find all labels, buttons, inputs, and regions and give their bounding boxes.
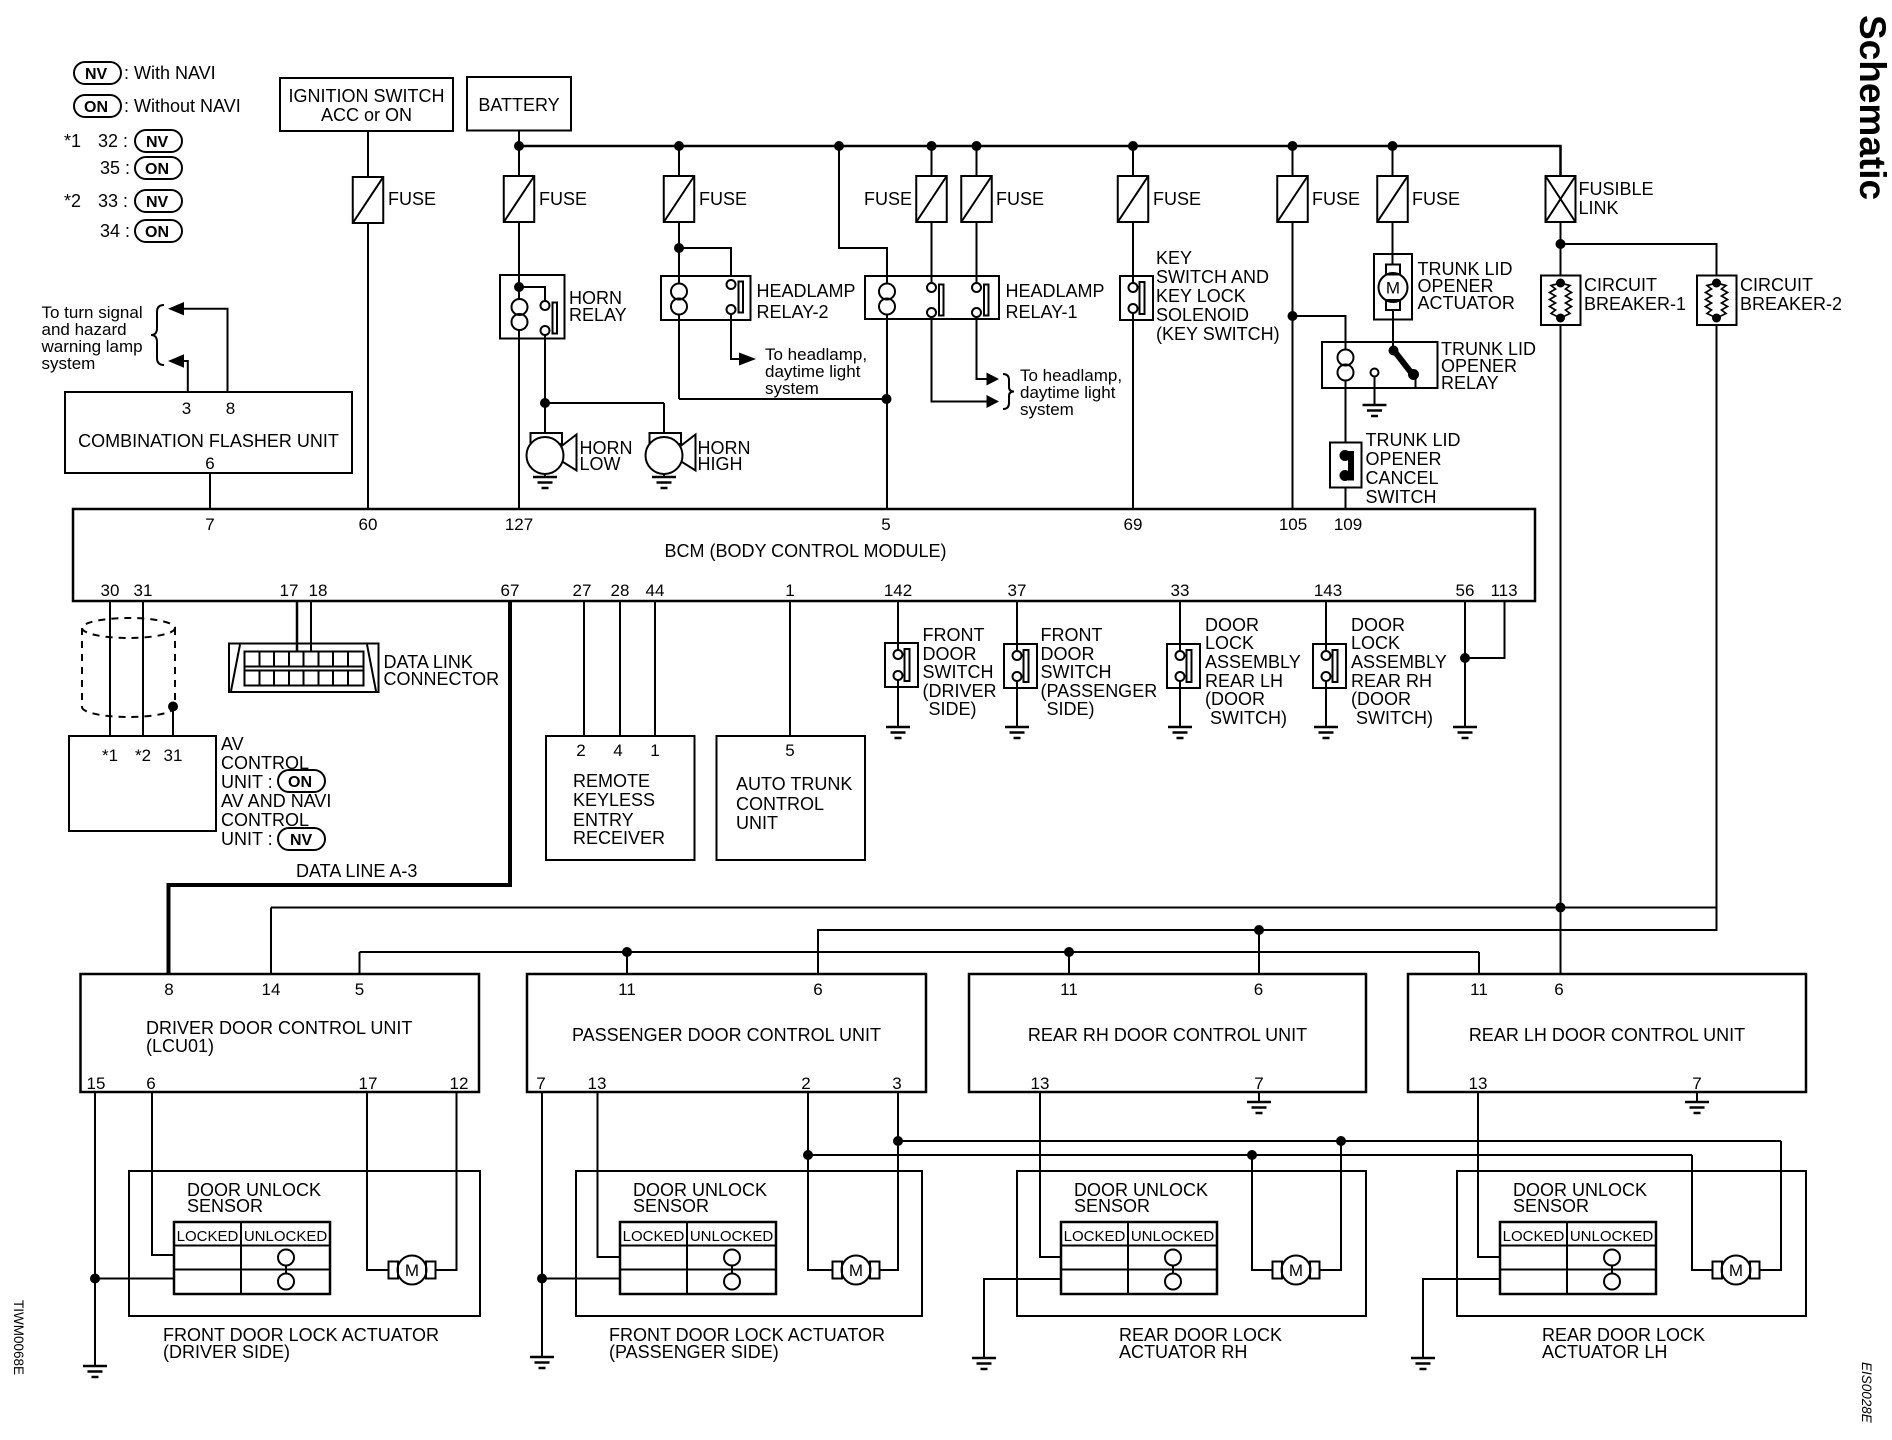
svg-text:28: 28 (611, 581, 630, 600)
wire bus to fuse F8 (1392, 146, 1394, 176)
svg-text:FUSE: FUSE (699, 189, 747, 209)
svg-text:UNIT :: UNIT : (221, 829, 273, 849)
svg-text:SIDE): SIDE) (1047, 699, 1095, 719)
wire rear RH pin 13 to sensor locked row (1040, 1092, 1061, 1257)
svg-text:UNLOCKED: UNLOCKED (1570, 1228, 1654, 1245)
svg-text:EIS0028E: EIS0028E (1859, 1362, 1874, 1424)
svg-text:109: 109 (1334, 515, 1362, 534)
wire BCM pin 143 to door lock assembly rear RH (1325, 601, 1327, 644)
svg-text:RELAY-1: RELAY-1 (1006, 302, 1078, 322)
svg-text:NV: NV (146, 134, 169, 151)
svg-text:FUSIBLE: FUSIBLE (1579, 179, 1654, 199)
wire shield drain to AV pin 31 (168, 702, 178, 737)
wire CB-1 to driver pin 14 and rear LH pin 6 (271, 325, 1717, 974)
wire BCM pin 27 to receiver pin 2 (583, 601, 585, 736)
svg-text:5: 5 (355, 980, 364, 999)
svg-text:13: 13 (1031, 1074, 1050, 1093)
door unlock sensor table rear RH (1061, 1222, 1217, 1294)
caption rear door lock actuator RH (1119, 1325, 1282, 1362)
svg-text:ACTUATOR LH: ACTUATOR LH (1542, 1342, 1667, 1362)
svg-text:FUSE: FUSE (1153, 189, 1201, 209)
svg-text:6: 6 (146, 1074, 155, 1093)
svg-text:IGNITION SWITCH: IGNITION SWITCH (289, 86, 445, 106)
svg-text:KEY LOCK: KEY LOCK (1156, 286, 1246, 306)
svg-text:(PASSENGER: (PASSENGER (1041, 681, 1158, 701)
wire to rear RH motor left (1252, 1155, 1273, 1270)
fuse F1 ignition (353, 177, 436, 223)
wire flasher pin 8 to turn signal arrow (168, 302, 228, 392)
ground driver actuator (83, 1366, 107, 1377)
ground passenger actuator (530, 1357, 554, 1368)
arrow to headlamp daytime light system 1 (739, 345, 867, 398)
wire flasher pin 6 to BCM pin 7 (209, 473, 211, 509)
wire relay-1 contact A to arrow (932, 317, 987, 402)
ground rear LH unit pin 7 (1685, 1092, 1709, 1113)
wire trunk relay coil to cancel switch (1345, 380, 1347, 443)
svg-text:FUSE: FUSE (996, 189, 1044, 209)
svg-text:31: 31 (164, 746, 183, 765)
svg-text:ACTUATOR RH: ACTUATOR RH (1119, 1342, 1247, 1362)
rear RH door control unit (969, 974, 1366, 1093)
svg-text:33: 33 (1171, 581, 1190, 600)
trunk lid opener actuator (1374, 222, 1515, 320)
svg-text:UNLOCKED: UNLOCKED (690, 1228, 774, 1245)
door lock motor passenger (833, 1256, 880, 1285)
legend 34 : ON (100, 220, 182, 242)
svg-text:1: 1 (650, 741, 659, 760)
fuse F4 (864, 176, 947, 222)
front door lock actuator passenger side (576, 1171, 922, 1316)
svg-text:*2: *2 (135, 746, 151, 765)
front door lock actuator driver side (129, 1171, 480, 1316)
svg-text:60: 60 (359, 515, 378, 534)
fuse F5 (961, 176, 1044, 222)
svg-text:RELAY: RELAY (569, 305, 627, 325)
svg-text:system: system (1020, 400, 1074, 419)
auto trunk control unit (717, 736, 866, 860)
rear door lock actuator RH (1017, 1171, 1366, 1316)
ground front door switch driver (886, 687, 910, 738)
wire BCM pin 28 to receiver pin 4 (619, 601, 621, 736)
svg-text:SWITCH: SWITCH (923, 662, 994, 682)
svg-text:*2: *2 (64, 191, 81, 211)
driver door control unit (81, 974, 480, 1093)
wire relay-2 coil bottom to pin5 node (678, 314, 680, 399)
wire bus to fuse F6 (1132, 146, 1134, 176)
door unlock sensor table driver (174, 1222, 330, 1294)
data link connector (229, 644, 499, 693)
svg-text:3: 3 (182, 399, 191, 418)
svg-text:SWITCH): SWITCH) (1356, 708, 1433, 728)
fuse F7 trunk relay (1277, 176, 1360, 222)
svg-text:37: 37 (1008, 581, 1027, 600)
door lock assembly rear RH door switch (1313, 615, 1447, 728)
svg-text:15: 15 (87, 1074, 106, 1093)
svg-text:REAR RH: REAR RH (1351, 671, 1432, 691)
wire driver pin 17 to motor (367, 1092, 389, 1270)
svg-text:BREAKER-2: BREAKER-2 (1740, 294, 1842, 314)
wire battery bus (514, 141, 1561, 176)
svg-text:143: 143 (1314, 581, 1342, 600)
svg-text:UNIT :: UNIT : (221, 772, 273, 792)
svg-text:CANCEL: CANCEL (1366, 468, 1439, 488)
svg-text:CONNECTOR: CONNECTOR (384, 669, 500, 689)
shield cylinder around AV wires (82, 618, 175, 717)
wire CB-2 to passenger pin 6 and rear RH pin 6 (818, 325, 1717, 974)
ground rear RH unit pin 7 (1247, 1092, 1271, 1113)
svg-text:35 :: 35 : (100, 158, 130, 178)
wire battery drop (518, 131, 520, 147)
svg-text:113: 113 (1490, 581, 1517, 600)
svg-text:2: 2 (576, 741, 585, 760)
wire BCM pin 30 to AV unit (109, 601, 111, 736)
svg-text:LOCKED: LOCKED (623, 1228, 685, 1245)
wire ignition to fuse (367, 131, 369, 177)
svg-text:LOCKED: LOCKED (1503, 1228, 1565, 1245)
caption front door lock actuator passenger side (609, 1325, 885, 1362)
wire driver pin 12 to motor (436, 1092, 457, 1270)
fuse F3 headlamp relay-2 (664, 176, 747, 222)
ground door lock assembly rear RH (1314, 688, 1338, 738)
wire rear LH pin 13 to sensor locked row (1478, 1092, 1500, 1257)
svg-text:NV: NV (290, 832, 313, 849)
wire data line A-3 BCM pin 67 to driver pin 8 (169, 601, 511, 974)
svg-text:COMBINATION FLASHER UNIT: COMBINATION FLASHER UNIT (78, 431, 339, 451)
wire fuse F1 to BCM pin 60 (367, 223, 369, 509)
svg-text:UNIT: UNIT (736, 813, 778, 833)
caption rear door lock actuator LH (1542, 1325, 1705, 1362)
svg-text:SWITCH: SWITCH (1041, 662, 1112, 682)
svg-text:SENSOR: SENSOR (187, 1196, 263, 1216)
wire fuse F7 to BCM pin 105 with branch to trunk relay coil (1288, 222, 1346, 509)
svg-text:3: 3 (892, 1074, 901, 1093)
svg-text:33 :: 33 : (98, 191, 128, 211)
trunk lid opener cancel switch (1330, 430, 1461, 507)
wire key switch to BCM pin 69 (1132, 320, 1134, 509)
svg-text:LOCKED: LOCKED (1064, 1228, 1126, 1245)
svg-text:SWITCH): SWITCH) (1210, 708, 1287, 728)
ground horn high (652, 474, 676, 488)
wire bus branch to relay-1 coil (839, 146, 887, 276)
svg-text:30: 30 (101, 581, 120, 600)
svg-text:REAR LH DOOR CONTROL UNIT: REAR LH DOOR CONTROL UNIT (1469, 1025, 1745, 1045)
svg-text:5: 5 (785, 741, 794, 760)
svg-text:5: 5 (881, 515, 890, 534)
svg-text:LOCKED: LOCKED (177, 1228, 239, 1245)
caption front door lock actuator driver side (163, 1325, 439, 1362)
svg-text:7: 7 (1254, 1074, 1263, 1093)
wire fuse F2 to horn relay (518, 222, 520, 287)
svg-text:FRONT: FRONT (923, 625, 985, 645)
svg-text:FUSE: FUSE (539, 189, 587, 209)
svg-text:44: 44 (646, 581, 665, 600)
ground door lock assembly rear LH (1168, 688, 1192, 738)
wire BCM pin 113 joins pin 56 (1465, 601, 1505, 658)
circuit breaker-1 (1541, 275, 1686, 325)
svg-text:FUSE: FUSE (864, 189, 912, 209)
svg-text:DATA LINE A-3: DATA LINE A-3 (296, 861, 417, 881)
fuse F2 horn (504, 176, 587, 222)
legend 35 : ON (100, 157, 182, 179)
passenger door control unit (527, 974, 926, 1093)
wire bus to fuse F7 (1292, 146, 1294, 176)
ground horn low (533, 474, 557, 488)
svg-text:SIDE): SIDE) (929, 699, 977, 719)
svg-text:56: 56 (1456, 581, 1475, 600)
headlamp relay-1 (865, 276, 1105, 322)
svg-text:ASSEMBLY: ASSEMBLY (1205, 652, 1301, 672)
door unlock sensor table rear LH (1500, 1222, 1656, 1294)
combination flasher unit (65, 392, 352, 473)
rear LH door control unit (1408, 974, 1806, 1093)
svg-text:8: 8 (164, 980, 173, 999)
trunk lid opener relay (1322, 339, 1536, 393)
svg-text:18: 18 (309, 581, 328, 600)
svg-text:ON: ON (84, 99, 108, 116)
front door switch driver side (885, 625, 997, 719)
svg-text:34 :: 34 : (100, 221, 130, 241)
svg-text:31: 31 (134, 581, 153, 600)
svg-text:: Without NAVI: : Without NAVI (124, 96, 241, 116)
fuse F8 trunk actuator (1377, 176, 1460, 222)
wire to rear LH motor left (1692, 1155, 1713, 1270)
svg-text:PASSENGER DOOR CONTROL UNIT: PASSENGER DOOR CONTROL UNIT (572, 1025, 881, 1045)
svg-text:SOLENOID: SOLENOID (1156, 305, 1249, 325)
wire fusible link to circuit breakers (1556, 222, 1717, 276)
circuit breaker-2 (1697, 275, 1842, 325)
svg-text:6: 6 (1554, 980, 1563, 999)
svg-text:27: 27 (573, 581, 592, 600)
svg-text:NV: NV (85, 66, 108, 83)
wire rear LH sensor to ground (1423, 1279, 1500, 1358)
svg-text:HIGH: HIGH (698, 454, 743, 474)
front door switch passenger side (1004, 625, 1157, 719)
svg-text:LOW: LOW (580, 454, 621, 474)
svg-text:67: 67 (501, 581, 520, 600)
svg-text:17: 17 (280, 581, 299, 600)
svg-text:RECEIVER: RECEIVER (573, 828, 665, 848)
svg-text:6: 6 (813, 980, 822, 999)
svg-text:DOOR: DOOR (1041, 644, 1095, 664)
svg-text:7: 7 (205, 515, 214, 534)
wire bus to fuse F5 (976, 146, 978, 176)
wire BCM pin 17 to data link connector (296, 601, 299, 651)
wire bus to fuse F2 (518, 146, 520, 176)
svg-text:AUTO TRUNK: AUTO TRUNK (736, 774, 852, 794)
svg-text:OPENER: OPENER (1366, 449, 1442, 469)
legend *1 32 : NV (64, 130, 182, 152)
wire to rear RH motor right (1320, 1141, 1342, 1270)
horn high (646, 433, 751, 474)
ground rear RH actuator (972, 1358, 996, 1369)
svg-text:BATTERY: BATTERY (478, 95, 559, 115)
svg-text:4: 4 (613, 741, 622, 760)
wire passenger pin 13 to sensor locked row (598, 1092, 621, 1257)
headlamp relay-2 (661, 276, 856, 322)
door lock assembly rear LH door switch (1167, 615, 1301, 728)
svg-text:Schematic: Schematic (1852, 15, 1892, 200)
svg-text:SENSOR: SENSOR (1513, 1196, 1589, 1216)
svg-text:*1: *1 (102, 746, 118, 765)
wire horn relay coil to BCM pin 127 (518, 330, 520, 509)
svg-text:M: M (1386, 279, 1400, 298)
svg-text:RELAY: RELAY (1441, 373, 1499, 393)
svg-text:AV AND NAVI: AV AND NAVI (221, 791, 331, 811)
svg-text:ON: ON (145, 224, 169, 241)
ground BCM pin 56 (1453, 727, 1477, 738)
svg-text:REAR RH DOOR CONTROL UNIT: REAR RH DOOR CONTROL UNIT (1028, 1025, 1307, 1045)
svg-text:LOCK: LOCK (1205, 633, 1254, 653)
svg-text:CIRCUIT: CIRCUIT (1584, 275, 1657, 295)
svg-text:DOOR: DOOR (923, 644, 977, 664)
wire bus to fuse F4 (931, 146, 933, 176)
wire horn relay contact to horns (540, 334, 664, 433)
svg-text:SENSOR: SENSOR (633, 1196, 709, 1216)
svg-text:HEADLAMP: HEADLAMP (1006, 281, 1105, 301)
svg-text:12: 12 (450, 1074, 469, 1093)
legend ON : Without NAVI (74, 95, 241, 117)
horn relay (500, 275, 627, 339)
wire fuse F4 to relay-1 contact A (931, 222, 933, 283)
wire passenger pin 3 to motor (880, 1092, 899, 1270)
svg-text:DOOR: DOOR (1205, 615, 1259, 635)
svg-text:FRONT: FRONT (1041, 625, 1103, 645)
wire driver pin 6 to sensor locked row (152, 1092, 174, 1255)
svg-text:ON: ON (288, 774, 312, 791)
fuse F6 key switch (1118, 176, 1201, 222)
horn low (527, 433, 633, 474)
svg-text:CIRCUIT: CIRCUIT (1740, 275, 1813, 295)
wire passenger pin 2 to motor (808, 1092, 833, 1270)
svg-text:TIWM0068E: TIWM0068E (11, 1300, 26, 1375)
svg-text:BREAKER-1: BREAKER-1 (1584, 294, 1686, 314)
door unlock sensor table passenger (620, 1222, 776, 1294)
wire passenger pin 2 to rear motors left (803, 1150, 1692, 1160)
svg-text:(DRIVER: (DRIVER (923, 681, 997, 701)
svg-text:system: system (765, 379, 819, 398)
wire flasher pin 3 to hazard arrow (168, 354, 188, 392)
svg-text:SWITCH: SWITCH (1366, 487, 1437, 507)
wire relay-2 to relay-1 junction (679, 398, 887, 400)
wire passenger pin 7 to sensor and ground (537, 1092, 620, 1357)
svg-text:6: 6 (205, 454, 214, 473)
wire driver pin 15 to sensor and ground (90, 1092, 174, 1366)
AV control unit label with NAVI ovals (221, 734, 331, 850)
wire BCM pin 1 to auto trunk control unit pin 5 (789, 601, 791, 736)
wire rear RH sensor to ground (984, 1279, 1061, 1358)
wire bus to fuse F3 (678, 146, 680, 176)
arrows and brace to headlamp daytime light system 2 (987, 366, 1123, 419)
svg-text:ACC or ON: ACC or ON (321, 105, 412, 125)
door lock motor rear RH (1273, 1256, 1320, 1285)
wire cancel switch to BCM pin 109 (1345, 488, 1347, 510)
svg-text:SENSOR: SENSOR (1074, 1196, 1150, 1216)
wire relay-1 coil to BCM pin 5 (882, 314, 892, 509)
ground front door switch passenger (1005, 688, 1029, 738)
to turn signal and hazard warning lamp system note (41, 303, 165, 373)
svg-text:FUSE: FUSE (1312, 189, 1360, 209)
svg-text:DRIVER DOOR CONTROL UNIT: DRIVER DOOR CONTROL UNIT (146, 1018, 412, 1038)
fusible link (1546, 176, 1654, 222)
wire fuse F3 to relay-2 coil with branch to contact (674, 222, 731, 276)
ground trunk relay contact (1363, 377, 1387, 417)
ground rear LH actuator (1411, 1358, 1435, 1369)
svg-text:(DOOR: (DOOR (1351, 689, 1411, 709)
svg-text:FUSE: FUSE (1412, 189, 1460, 209)
AV control unit (69, 736, 216, 831)
svg-text:7: 7 (536, 1074, 545, 1093)
svg-text:FUSE: FUSE (388, 189, 436, 209)
svg-text:KEY: KEY (1156, 248, 1192, 268)
svg-text:HEADLAMP: HEADLAMP (757, 281, 856, 301)
svg-text:DOOR: DOOR (1351, 615, 1405, 635)
wire BCM pin 33 to door lock assembly rear LH (1179, 601, 1181, 644)
svg-text:13: 13 (1469, 1074, 1488, 1093)
BCM body control module (73, 509, 1535, 601)
wire actuator to trunk relay blade (1392, 310, 1394, 350)
key switch and key lock solenoid (1120, 222, 1280, 344)
wire fuse F5 to relay-1 contact B (976, 222, 978, 283)
wire to rear LH motor right (1760, 1141, 1782, 1270)
wire BCM pin 44 to receiver pin 1 (654, 601, 656, 736)
svg-text:ENTRY: ENTRY (573, 810, 634, 830)
svg-text:*1: *1 (64, 131, 81, 151)
svg-text:13: 13 (588, 1074, 607, 1093)
svg-text:: With NAVI: : With NAVI (124, 63, 216, 83)
svg-text:(DRIVER SIDE): (DRIVER SIDE) (163, 1342, 290, 1362)
svg-text:142: 142 (884, 581, 912, 600)
svg-text:ASSEMBLY: ASSEMBLY (1351, 652, 1447, 672)
svg-text:7: 7 (1692, 1074, 1701, 1093)
svg-text:105: 105 (1279, 515, 1307, 534)
svg-text:2: 2 (801, 1074, 810, 1093)
wire relay-1 contact B to arrow (977, 317, 987, 379)
svg-text:LINK: LINK (1579, 198, 1619, 218)
svg-text:14: 14 (262, 980, 281, 999)
svg-text:32 :: 32 : (98, 131, 128, 151)
legend NV : With NAVI (74, 62, 216, 84)
legend *2 33 : NV (64, 190, 182, 212)
svg-text:11: 11 (618, 980, 636, 999)
svg-text:KEYLESS: KEYLESS (573, 790, 655, 810)
remote keyless entry receiver (546, 736, 695, 860)
svg-text:17: 17 (359, 1074, 378, 1093)
svg-text:(KEY SWITCH): (KEY SWITCH) (1156, 324, 1280, 344)
wire BCM pin 142 to front door switch driver (897, 601, 899, 643)
svg-text:REMOTE: REMOTE (573, 771, 650, 791)
wire driver pin 5 to pin 11 of other door units (360, 947, 1480, 974)
svg-text:LOCK: LOCK (1351, 633, 1400, 653)
svg-text:ACTUATOR: ACTUATOR (1418, 293, 1515, 313)
svg-text:REAR LH: REAR LH (1205, 671, 1283, 691)
svg-text:11: 11 (1060, 980, 1078, 999)
svg-text:UNLOCKED: UNLOCKED (244, 1228, 328, 1245)
battery (467, 77, 571, 131)
wire BCM pin 31 to AV unit (142, 601, 144, 736)
rear door lock actuator LH (1457, 1171, 1806, 1316)
svg-text:11: 11 (1470, 980, 1488, 999)
wire passenger pin 3 to rear motors right (893, 1136, 1781, 1146)
svg-text:8: 8 (226, 399, 235, 418)
svg-text:TRUNK LID: TRUNK LID (1366, 430, 1461, 450)
wire BCM pin 56 to ground (1460, 601, 1470, 727)
wire BCM pin 18 to data link connector (310, 601, 312, 651)
svg-text:(DOOR: (DOOR (1205, 689, 1265, 709)
svg-text:NV: NV (146, 194, 169, 211)
wire BCM pin 37 to front door switch passenger (1016, 601, 1018, 644)
svg-text:69: 69 (1124, 515, 1143, 534)
svg-text:system: system (42, 354, 96, 373)
